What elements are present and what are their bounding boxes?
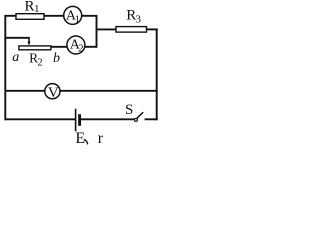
wire A1 to junction node — [81, 15, 97, 17]
switch S pivot — [134, 118, 137, 121]
voltmeter V — [45, 84, 60, 99]
wire V row right — [60, 90, 158, 92]
wire row1 left (rail to R1) — [5, 15, 17, 17]
svg-text:1: 1 — [75, 13, 81, 25]
wire bottom left (rail to battery) — [5, 118, 76, 120]
svg-text:r: r — [98, 130, 104, 146]
battery E,r short thick plate — [78, 114, 81, 126]
node junction bus (A1/A2/R3) — [96, 15, 98, 48]
svg-text:3: 3 — [136, 14, 142, 26]
svg-text:2: 2 — [78, 42, 84, 54]
wire V row left — [5, 90, 46, 92]
ammeter A1 — [64, 6, 82, 24]
battery E,r long plate — [75, 109, 77, 132]
resistor R3 — [116, 27, 147, 32]
svg-text:E: E — [75, 130, 85, 146]
wire switch to right rail — [145, 118, 158, 120]
ammeter A2 — [67, 36, 85, 54]
wire R1 to A1 — [45, 15, 65, 17]
resistor R1 — [16, 14, 44, 20]
svg-text:R: R — [25, 0, 35, 15]
wire A2 to junction node — [84, 46, 97, 48]
svg-text:2: 2 — [37, 58, 42, 69]
rheostat R2 wiper arrow — [28, 38, 30, 43]
wire battery to switch — [80, 118, 135, 120]
wire right rail — [156, 29, 158, 121]
svg-text:1: 1 — [34, 3, 40, 15]
wire rheostat wiper feed — [5, 37, 30, 39]
rheostat R2 — [19, 46, 51, 50]
svg-text:S: S — [125, 102, 133, 118]
wire junction to R3 — [97, 28, 117, 30]
wire R2 to A2 — [51, 46, 68, 48]
wire R3 to right rail — [147, 28, 158, 30]
svg-text:V: V — [48, 85, 59, 101]
svg-text:b: b — [53, 51, 60, 66]
wire left rail — [4, 15, 6, 120]
switch S blade — [137, 112, 143, 118]
svg-text:a: a — [12, 50, 19, 65]
